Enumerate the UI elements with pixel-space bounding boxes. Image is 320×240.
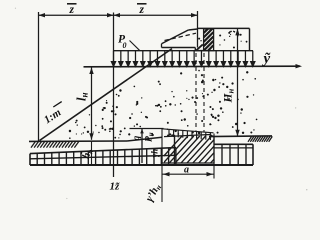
dashed projection line left xyxy=(195,53,197,131)
ground hatching right xyxy=(248,136,272,141)
extension line a left xyxy=(161,129,163,202)
distributed load P0 top line xyxy=(114,50,254,52)
svg-text:a: a xyxy=(184,165,189,176)
label gamma-h rotated xyxy=(150,149,160,158)
band bottom line xyxy=(30,164,253,166)
arrowhead Hn top xyxy=(235,29,239,36)
dimension line a xyxy=(162,173,214,175)
faint scan speckles xyxy=(15,8,308,199)
hatched rect hatching xyxy=(204,23,214,55)
arrowhead Hn bottom xyxy=(235,130,239,137)
slope line 1:m xyxy=(40,49,173,141)
ground line rising segment xyxy=(127,137,162,141)
dimension line Hn xyxy=(237,29,239,136)
mini strip top line xyxy=(162,129,214,133)
band top line right xyxy=(214,143,253,145)
band right cap xyxy=(252,144,254,165)
arrowhead center dim z right span xyxy=(114,13,121,17)
svg-text:1z̃: 1z̃ xyxy=(110,181,121,193)
label ln rotated xyxy=(75,93,90,101)
svg-text:0: 0 xyxy=(123,41,127,50)
trapezoid hatching xyxy=(157,136,235,164)
label Hn rotated xyxy=(223,89,236,104)
svg-text:z: z xyxy=(69,4,75,16)
stipple dots soil texture xyxy=(69,31,258,139)
band left cap xyxy=(29,154,31,165)
ballast box top edge xyxy=(198,27,250,29)
block left edge xyxy=(161,44,163,48)
label gamma-prime-h-n rotated xyxy=(143,182,163,204)
h_n measuring line below ground xyxy=(91,141,93,164)
stray hatch dash near step xyxy=(196,44,202,50)
band dividers left xyxy=(37,148,176,165)
dashed projection line right xyxy=(203,53,205,132)
extension line center long xyxy=(113,13,115,178)
block right edge xyxy=(197,29,199,48)
ballast box right edge xyxy=(249,28,251,50)
ground line right xyxy=(209,135,272,138)
distributed load P0 arrows xyxy=(111,51,254,67)
label h-tilde-n rotated xyxy=(79,147,95,161)
small arrowhead at q/P line xyxy=(140,129,144,134)
arrowhead ln top xyxy=(89,68,93,75)
band top line left xyxy=(30,148,176,154)
trapezoid outline xyxy=(162,135,214,164)
arrowhead left dim z xyxy=(39,13,46,17)
block hidden dashed edge xyxy=(165,33,197,40)
band vertical at trapezoid left xyxy=(174,135,176,165)
arrowhead a right xyxy=(207,172,214,176)
extension line left at toe xyxy=(38,12,40,141)
band dividers right xyxy=(222,144,246,165)
block bottom edge xyxy=(162,47,196,49)
extension line right to block xyxy=(197,11,199,29)
svg-text:ỹ: ỹ xyxy=(262,51,271,67)
ground hatching left xyxy=(31,142,79,148)
hatched rect outline xyxy=(204,29,214,51)
block left slant edge xyxy=(162,30,189,44)
svg-text:z: z xyxy=(139,4,145,16)
block step outline xyxy=(195,48,203,51)
arrowhead center dim z left span xyxy=(107,13,114,17)
ground line left xyxy=(29,140,127,142)
arrowhead right dim z xyxy=(191,13,198,17)
dimension line ln xyxy=(91,68,93,140)
extension line a right xyxy=(213,134,215,179)
slope label 1:m with bar over m xyxy=(41,102,69,127)
svg-text:γh: γh xyxy=(150,149,160,158)
band second line right xyxy=(214,147,253,149)
band mid line left xyxy=(30,155,176,159)
svg-text:Pн: Pн xyxy=(145,132,156,142)
dimension line z overall top xyxy=(39,14,198,16)
label Pn rotated xyxy=(145,132,156,142)
svg-text:q: q xyxy=(132,136,142,141)
block top edge xyxy=(188,29,197,30)
label q rotated xyxy=(132,136,142,141)
arrowhead a left xyxy=(163,172,170,176)
pressure diagram top line xyxy=(130,128,164,130)
mini strip bars xyxy=(169,129,210,140)
surface line / y-tilde axis xyxy=(84,65,301,68)
leader line P0 xyxy=(130,41,140,51)
pressure divider vertical xyxy=(141,129,143,164)
arrowhead y axis xyxy=(296,64,303,68)
arrowhead ln bottom xyxy=(89,133,93,140)
